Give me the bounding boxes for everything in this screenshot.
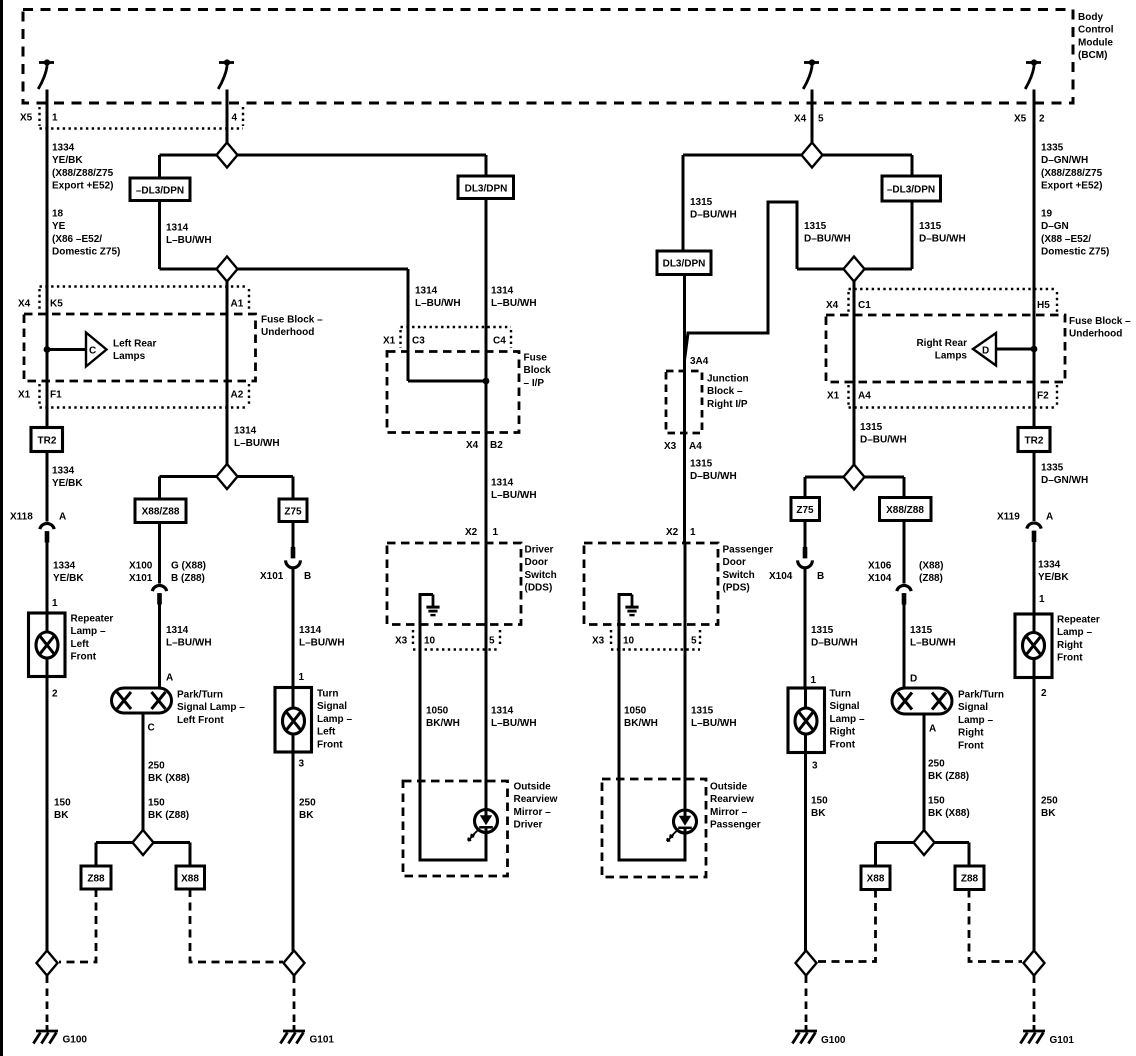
svg-text:5: 5 (818, 114, 824, 125)
svg-text:X1: X1 (383, 336, 396, 347)
svg-text:1: 1 (52, 598, 58, 609)
svg-text:Door: Door (723, 557, 746, 568)
svg-text:H5: H5 (1037, 300, 1050, 311)
svg-text:DL3/DPN: DL3/DPN (465, 184, 508, 195)
svg-text:Switch: Switch (525, 570, 557, 581)
inline connector X100/X101 (152, 585, 166, 604)
svg-text:D–BU/WH: D–BU/WH (811, 638, 858, 649)
svg-text:Export +E52): Export +E52) (1041, 181, 1102, 192)
wire Z75 to connector X101-B (292, 522, 295, 548)
splice diamond ground branches left (96, 841, 190, 844)
svg-text:YE: YE (52, 221, 66, 232)
wire TR2 to X119 (1033, 452, 1036, 522)
svg-text:1315: 1315 (919, 221, 942, 232)
dashed stub to G101 right (1033, 976, 1036, 1030)
wire X104 to turn signal lamp right (804, 568, 807, 688)
wire repeater right to G101 diamond (1033, 678, 1036, 952)
svg-text:B: B (817, 571, 824, 582)
wire to Z75 option box right (804, 477, 807, 498)
dashed wire X88 to G100 diamond right (818, 890, 876, 962)
repeater lamp left bulb (36, 632, 58, 658)
svg-text:250: 250 (928, 759, 945, 770)
svg-text:X101: X101 (260, 571, 284, 582)
splice diamond at X5-4 (217, 143, 238, 168)
svg-text:1335: 1335 (1041, 143, 1064, 154)
svg-text:150: 150 (811, 796, 828, 807)
svg-text:X2: X2 (465, 527, 478, 538)
dashed wire Z88 to G101 diamond right (969, 890, 1022, 962)
svg-text:D: D (982, 346, 989, 357)
svg-text:1315: 1315 (811, 625, 834, 636)
inline connector X119 (1027, 523, 1041, 542)
switch in BCM, output X5-1 (38, 59, 54, 89)
svg-text:X4: X4 (794, 114, 807, 125)
svg-text:L–BU/WH: L–BU/WH (910, 638, 956, 649)
svg-text:1: 1 (690, 527, 696, 538)
svg-text:Front: Front (317, 739, 343, 750)
wire X4-5 BCM to splice diamond (811, 90, 814, 144)
wire to X88/Z88 option box right (903, 477, 906, 498)
option box Z75 left (279, 499, 307, 522)
svg-text:BK/WH: BK/WH (624, 718, 658, 729)
svg-text:Front: Front (71, 652, 97, 663)
svg-text:1335: 1335 (1041, 463, 1064, 474)
svg-text:1314: 1314 (299, 625, 322, 636)
fuse TR2 right box (1018, 428, 1050, 452)
inline connector X118 (40, 523, 54, 542)
junction block right I/P dashed box (666, 371, 702, 433)
turn signal LED driver mirror (468, 810, 498, 841)
svg-text:BK (X88): BK (X88) (148, 773, 190, 784)
svg-text:C3: C3 (412, 336, 425, 347)
wire X5-2 BCM to fuse block H5 (1033, 90, 1036, 428)
svg-text:Rearview: Rearview (710, 794, 754, 805)
switch in BCM, output X4-5 (803, 59, 819, 89)
svg-text:D–GN: D–GN (1041, 221, 1069, 232)
svg-text:D–BU/WH: D–BU/WH (919, 234, 966, 245)
svg-text:C: C (89, 346, 96, 357)
svg-text:Front: Front (830, 739, 856, 750)
dashed stub to G100 right (805, 976, 808, 1030)
chassis ground G101 left (293, 1025, 296, 1031)
svg-text:(X88): (X88) (919, 561, 943, 572)
splice horizontal right upper (683, 154, 912, 157)
wire C3 drop (407, 269, 410, 381)
svg-text:1050: 1050 (624, 706, 647, 717)
ground splice diamond G101 right (1024, 951, 1045, 976)
svg-text:1315: 1315 (910, 625, 933, 636)
svg-text:BK (Z88): BK (Z88) (148, 810, 189, 821)
svg-text:Right: Right (1057, 640, 1083, 651)
svg-text:F2: F2 (1037, 391, 1049, 402)
svg-text:X3: X3 (664, 441, 677, 452)
svg-text:G (X88): G (X88) (171, 561, 206, 572)
park/turn signal lamp right front capsule (892, 688, 952, 714)
svg-text:BK: BK (811, 808, 826, 819)
fuse block I/P dashed box (387, 352, 519, 433)
repeater lamp left front box (29, 613, 66, 677)
park/turn left filament X marks (117, 692, 131, 709)
svg-text:A: A (166, 673, 173, 684)
ground splice diamond G100 left (37, 951, 58, 976)
wire Z75 to connector X104-B (804, 521, 807, 548)
wire pin 5 through PDS (684, 543, 687, 810)
fuse TR2 left box (31, 428, 63, 452)
wire to X88/Z88 option box (158, 477, 161, 500)
svg-text:Lamp –: Lamp – (830, 714, 865, 725)
chassis ground G101 right (1033, 1025, 1036, 1031)
inline connector X104 pin B (798, 547, 813, 568)
svg-text:Turn: Turn (830, 689, 851, 700)
wire to Z88 box right (968, 843, 971, 867)
svg-text:Front: Front (1057, 653, 1083, 664)
svg-text:Block: Block (524, 365, 552, 376)
svg-text:1314: 1314 (491, 286, 514, 297)
svg-text:A2: A2 (231, 390, 244, 401)
svg-text:1314: 1314 (234, 426, 257, 437)
svg-text:C1: C1 (858, 300, 871, 311)
svg-text:Passenger: Passenger (723, 545, 774, 556)
svg-text:1334: 1334 (53, 561, 76, 572)
svg-text:1315: 1315 (690, 459, 713, 470)
junction dot to left rear lamps (44, 346, 51, 353)
svg-text:Passenger: Passenger (710, 820, 761, 831)
wire to triangle C (47, 348, 86, 351)
option box Z88 bottom left (81, 866, 111, 889)
triangle C left rear lamps (86, 333, 107, 367)
svg-text:250: 250 (148, 761, 165, 772)
wire to X88 box right (874, 843, 877, 867)
option box X88 bottom right (861, 866, 890, 890)
svg-text:BK/WH: BK/WH (426, 718, 460, 729)
svg-text:C: C (148, 723, 155, 734)
svg-text:X2: X2 (666, 527, 679, 538)
svg-text:Outside: Outside (710, 782, 748, 793)
wire X101 to turn signal lamp left (292, 568, 295, 688)
svg-text:X106: X106 (868, 561, 892, 572)
park/turn signal lamp left front capsule (112, 688, 172, 713)
svg-text:BK: BK (1041, 808, 1056, 819)
svg-text:Left Front: Left Front (177, 715, 224, 726)
wire 1050 BK/WH mirror loop passenger (619, 650, 685, 861)
wire diamond to C1 fuse block right (853, 281, 856, 465)
svg-text:19: 19 (1041, 209, 1053, 220)
svg-text:5: 5 (489, 636, 495, 647)
park/turn right filament X marks (898, 693, 912, 710)
svg-text:Domestic Z75): Domestic Z75) (1041, 247, 1109, 258)
wire turn signal lamp to G101 diamond (292, 752, 295, 951)
svg-text:G101: G101 (1050, 1035, 1075, 1046)
svg-text:D–GN/WH: D–GN/WH (1041, 155, 1088, 166)
svg-text:X3: X3 (395, 636, 408, 647)
svg-text:Fuse Block –: Fuse Block – (261, 315, 323, 326)
svg-text:Switch: Switch (723, 570, 755, 581)
wire X88/Z88 to connector X106/X104 (903, 521, 906, 584)
svg-text:X88: X88 (867, 874, 885, 885)
svg-text:Left: Left (71, 639, 90, 650)
svg-text:1314: 1314 (415, 286, 438, 297)
svg-text:Signal Lamp –: Signal Lamp – (177, 702, 245, 713)
svg-text:YE/BK: YE/BK (1038, 572, 1069, 583)
splice diamond on 1314 net (217, 257, 238, 282)
svg-text:X88/Z88: X88/Z88 (886, 505, 924, 516)
inline connector X106/X104 (897, 585, 911, 604)
svg-text:F1: F1 (50, 390, 62, 401)
wire DL3/DPN to 3A4 splice (683, 275, 686, 544)
chassis ground G100 left (46, 1025, 49, 1031)
junction dot C3/C4 (483, 378, 490, 385)
fuse block underhood left: top connector row X4 (40, 287, 250, 311)
svg-text:TR2: TR2 (1025, 436, 1044, 447)
outside rearview mirror driver dashed box (403, 781, 508, 876)
wire X119 to repeater lamp right (1033, 542, 1036, 614)
svg-text:L–BU/WH: L–BU/WH (491, 298, 537, 309)
svg-text:2: 2 (1041, 688, 1047, 699)
svg-text:1: 1 (1039, 594, 1045, 605)
svg-text:BK (Z88): BK (Z88) (928, 771, 969, 782)
option box X88 bottom left (176, 866, 205, 889)
fuse block underhood left dashed box (24, 314, 256, 381)
wire DL3/DPN to fuse block C4 (485, 199, 488, 382)
wire repeater to ground diamond (46, 677, 49, 952)
svg-text:L–BU/WH: L–BU/WH (299, 638, 345, 649)
ground splice diamond G101 left (284, 951, 305, 976)
svg-text:Door: Door (525, 557, 548, 568)
svg-text:Mirror –: Mirror – (710, 807, 748, 818)
svg-text:Signal: Signal (317, 701, 347, 712)
svg-text:G100: G100 (63, 1035, 88, 1046)
option box DL3/DPN middle (458, 176, 514, 199)
repeater lamp right front box (1015, 614, 1052, 678)
switch in BCM, output X5-2 (1025, 59, 1041, 89)
svg-text:X1: X1 (827, 391, 840, 402)
connector row X5 pins 1,4 dotted line (40, 107, 244, 129)
svg-text:YE/BK: YE/BK (53, 573, 84, 584)
wire connector to park/turn lamp pin A (158, 605, 161, 689)
svg-text:Park/Turn: Park/Turn (958, 690, 1004, 701)
dashed wire Z88 to G100 diamond (59, 889, 96, 962)
wire drop to -DL3/DPN box (158, 155, 161, 178)
wire below -DL3/DPN (158, 201, 161, 270)
svg-text:1315: 1315 (690, 197, 713, 208)
svg-text:(X88/Z88/Z75: (X88/Z88/Z75 (52, 168, 114, 179)
svg-text:4: 4 (232, 113, 238, 124)
svg-text:Lamps: Lamps (935, 351, 968, 362)
svg-text:Z88: Z88 (961, 874, 979, 885)
svg-text:Right I/P: Right I/P (707, 399, 748, 410)
svg-text:1334: 1334 (52, 466, 75, 477)
svg-text:(DDS): (DDS) (525, 583, 553, 594)
svg-text:L–BU/WH: L–BU/WH (491, 490, 537, 501)
svg-text:K5: K5 (50, 299, 63, 310)
svg-text:TR2: TR2 (38, 436, 57, 447)
svg-text:BK: BK (54, 810, 69, 821)
svg-text:Domestic Z75): Domestic Z75) (52, 247, 120, 258)
svg-text:YE/BK: YE/BK (52, 155, 83, 166)
chassis ground G100 right (805, 1025, 808, 1031)
jog wire to 3A4 splice (685, 202, 798, 360)
fuse block left: bottom connector row X1 (40, 384, 250, 408)
turn signal lamp left front box (275, 688, 312, 753)
svg-text:Module: Module (1078, 37, 1113, 48)
svg-text:D–GN/WH: D–GN/WH (1041, 475, 1088, 486)
svg-text:BK: BK (299, 810, 314, 821)
svg-text:X119: X119 (997, 512, 1020, 523)
svg-text:Fuse Block –: Fuse Block – (1069, 316, 1131, 327)
svg-text:Rearview: Rearview (514, 794, 558, 805)
svg-text:L–BU/WH: L–BU/WH (234, 438, 280, 449)
svg-text:D–BU/WH: D–BU/WH (690, 471, 737, 482)
option box DL3/DPN right (657, 251, 711, 275)
svg-text:Outside: Outside (514, 782, 552, 793)
svg-text:D–BU/WH: D–BU/WH (860, 435, 907, 446)
svg-text:1050: 1050 (426, 706, 449, 717)
svg-text:X5: X5 (20, 113, 33, 124)
svg-text:X1: X1 (18, 390, 31, 401)
svg-text:G100: G100 (821, 1035, 846, 1046)
svg-text:X118: X118 (10, 512, 33, 523)
turn signal lamp right front box (788, 688, 825, 753)
svg-text:A4: A4 (858, 391, 871, 402)
svg-text:150: 150 (148, 798, 165, 809)
Body Control Module (BCM) dashed box (23, 10, 1073, 104)
svg-text:10: 10 (424, 636, 436, 647)
svg-text:Lamp –: Lamp – (958, 715, 993, 726)
wire pin C to diamond (142, 713, 145, 831)
turn signal lamp right bulb (795, 708, 817, 734)
svg-text:Z75: Z75 (796, 505, 814, 516)
turn signal lamp left bulb (283, 708, 305, 734)
svg-text:Signal: Signal (830, 701, 860, 712)
wire to Z75 option box (292, 477, 295, 500)
svg-text:X101: X101 (129, 573, 153, 584)
outside rearview mirror passenger dashed box (602, 779, 706, 877)
svg-text:D–BU/WH: D–BU/WH (690, 210, 737, 221)
svg-text:X100: X100 (129, 561, 153, 572)
svg-text:1334: 1334 (1038, 560, 1061, 571)
wire C4 to B2 and down to DDS X2-1 (485, 381, 488, 543)
svg-text:Underhood: Underhood (261, 327, 314, 338)
wire pin 5 through DDS (485, 543, 488, 810)
svg-text:A: A (59, 512, 66, 523)
wire connector to park/turn lamp pin D (903, 605, 906, 689)
svg-text:Mirror –: Mirror – (514, 807, 552, 818)
option box -DL3/DPN right (882, 176, 941, 201)
switch in BCM, output X5-4 (218, 59, 234, 89)
svg-text:Z75: Z75 (284, 507, 302, 518)
svg-text:X88/Z88: X88/Z88 (142, 507, 180, 518)
svg-text:Driver: Driver (514, 820, 543, 831)
fuse block underhood right dashed box (826, 315, 1065, 382)
svg-text:3: 3 (299, 759, 305, 770)
svg-text:1: 1 (493, 527, 499, 538)
svg-text:250: 250 (1041, 796, 1058, 807)
splice wire C3 to C4 inside fuse block (408, 380, 486, 383)
svg-text:150: 150 (54, 798, 71, 809)
DDS internal ground wire (420, 595, 433, 650)
svg-text:Lamp –: Lamp – (317, 714, 352, 725)
svg-text:Lamp –: Lamp – (71, 626, 106, 637)
svg-text:Export +E52): Export +E52) (52, 181, 113, 192)
svg-text:Repeater: Repeater (71, 614, 114, 625)
wire X118 to repeater lamp (46, 543, 49, 614)
svg-text:Signal: Signal (958, 702, 988, 713)
svg-text:X88: X88 (181, 874, 199, 885)
svg-text:X4: X4 (18, 299, 31, 310)
svg-text:B2: B2 (490, 440, 503, 451)
wire splice horizontal lower (160, 268, 409, 271)
svg-text:Block –: Block – (707, 386, 743, 397)
svg-text:1: 1 (811, 675, 817, 686)
svg-text:(X88 –E52/: (X88 –E52/ (1041, 234, 1091, 245)
svg-text:150: 150 (928, 796, 945, 807)
svg-text:Left: Left (317, 727, 336, 738)
wire pin A to diamond right (923, 714, 926, 831)
svg-text:X3: X3 (592, 636, 605, 647)
svg-text:Z88: Z88 (87, 874, 105, 885)
svg-text:A: A (1046, 512, 1053, 523)
svg-text:5: 5 (691, 636, 697, 647)
svg-text:X4: X4 (826, 300, 839, 311)
svg-text:BK (X88): BK (X88) (928, 808, 970, 819)
dashed wire X88 to G101 diamond (190, 889, 283, 962)
ground splice diamond G100 right (796, 951, 817, 976)
triangle D right rear lamps (973, 333, 996, 366)
option box X88/Z88 left (135, 499, 186, 523)
svg-text:2: 2 (52, 689, 58, 700)
svg-text:(PDS): (PDS) (723, 583, 750, 594)
wire X88/Z88 to connector X100/X101 (158, 523, 161, 584)
svg-text:1315: 1315 (860, 422, 883, 433)
svg-text:C4: C4 (493, 336, 506, 347)
option box Z88 bottom right (955, 866, 984, 890)
wire drop to DL3/DPN box (485, 155, 488, 176)
PDS internal ground wire (619, 595, 632, 650)
svg-text:3: 3 (812, 761, 818, 772)
svg-text:Right Rear: Right Rear (916, 338, 967, 349)
wire X5-4 BCM to splice diamond (226, 90, 229, 144)
driver door switch DDS dashed box (387, 543, 521, 625)
splice diamond 1314 to lamp branches (160, 475, 294, 478)
svg-text:L–BU/WH: L–BU/WH (415, 298, 461, 309)
svg-text:(BCM): (BCM) (1078, 50, 1107, 61)
svg-text:A4: A4 (689, 441, 702, 452)
wire to Z88 box (95, 843, 98, 867)
svg-text:L–BU/WH: L–BU/WH (166, 638, 212, 649)
wire TR2 to X118 (46, 452, 49, 522)
dashed stub to G101 (293, 976, 296, 1030)
svg-text:Junction: Junction (707, 374, 749, 385)
svg-text:DL3/DPN: DL3/DPN (663, 259, 706, 270)
passenger door switch PDS dashed box (584, 543, 718, 625)
splice diamond at X4-5 (802, 143, 823, 168)
svg-text:1314: 1314 (491, 706, 514, 717)
option box Z75 right (791, 498, 820, 521)
svg-text:Driver: Driver (525, 545, 554, 556)
option box X88/Z88 right (880, 498, 932, 521)
svg-text:18: 18 (52, 209, 64, 220)
splice diamond 1315 to lamp branches right (805, 476, 904, 479)
DDS bottom connector row X3 pins 10,5 (413, 630, 500, 650)
inline connector X101 pin B (286, 547, 301, 568)
fuse block I/P top connector row X1 pins C3 C4 (401, 327, 512, 348)
junction dot to right rear lamps (1031, 346, 1038, 353)
svg-text:3A4: 3A4 (690, 356, 709, 367)
svg-text:B (Z88): B (Z88) (171, 573, 205, 584)
svg-text:1314: 1314 (491, 478, 514, 489)
svg-text:10: 10 (623, 636, 635, 647)
wire drop to -DL3/DPN right (911, 155, 914, 176)
